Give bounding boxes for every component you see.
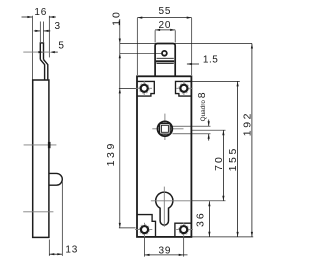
svg-text:139: 139 [105,141,117,166]
tab (stamped tongue) [155,44,175,82]
dim 13 arrow left (pointing left) [49,253,54,255]
dim 13 extension line right [61,182,63,256]
euro cylinder hole [156,192,173,225]
extension line body bottom [192,236,253,238]
dim 55 arrow left (pointing left) [137,17,142,19]
svg-text:3: 3 [55,21,61,32]
dim 36 arrow bottom (down) [208,232,210,237]
pocket bottom-left [137,215,156,237]
dim 39 extension line left [144,238,146,257]
screw bottom-left dashed circle [139,224,149,234]
dim 3 arrow left (pointing right) [35,30,40,32]
euro centerline horizontal (gray) [151,200,191,202]
spindle square inner [161,125,168,132]
pocket top-left [137,81,154,96]
dim 70 arrow bottom (down) [222,196,224,201]
dim 3 right tail [44,30,51,32]
dim 192 line [251,44,253,237]
extension line tab top (to 192 dim) [120,43,252,45]
screw bottom-left ring [141,226,148,233]
dim 5 arrow left (pointing right) [38,51,43,53]
dim 8 extension line top [173,125,211,127]
dim 39 arrow right (pointing right) [179,254,184,256]
dim 10 and dim 139 shared dimension line [119,19,121,228]
dim 155 line [237,81,239,237]
dim 70 extension line (euro center) [191,200,225,202]
spindle centerline (side, gray) [24,144,57,146]
dim 13 extension line left [48,240,50,256]
dim 5 arrow right (pointing left) [50,51,55,53]
screw top-left centerlines [136,81,152,96]
dim 139 extension line upper [119,87,136,89]
extension lines of sheet thickness [39,22,41,43]
dim 39 line [145,254,188,256]
dim 192 arrow bottom (down) [251,232,253,237]
spring leg upper (3 thick) [40,43,45,60]
faceplate bar (side view) [33,80,49,237]
dim 8 extension line bottom [173,133,211,135]
dim 20 arrow right (pointing right) [170,29,175,31]
dim 39 extension line right [183,238,185,257]
dim 20 line [155,29,175,31]
dim 3 arrow right (pointing left) [44,30,49,32]
lower centerline (side, gray) [23,211,53,213]
svg-text:20: 20 [159,20,172,31]
svg-text:155: 155 [227,146,239,171]
dim 36 extension: uses euro centerline and body bottom; line [208,201,210,237]
screw top-left ring [141,85,148,92]
svg-text:70: 70 [213,155,225,171]
dim 155 arrow top (up) [237,81,239,86]
dim 155 arrow bottom (down) [237,232,239,237]
svg-text:16: 16 [34,7,47,18]
dim 139 extension line lower [119,227,136,229]
dim 70 extension line (spindle center) [191,129,225,131]
svg-text:13: 13 [65,245,78,256]
screw top-right ring [180,85,187,92]
dim 16 line left tail [22,16,33,18]
euro centerline vertical (gray) [163,187,165,227]
extension line left bar edge [31,16,33,80]
dim 139 arrow lower (down) [119,223,121,228]
dim 55 extension line right [191,18,193,75]
screw bottom-right dashed circle [179,224,189,234]
screw top-right dashed circle [179,83,189,93]
cylinder protrusion (side view) [49,173,62,185]
spring leg S-bend [40,60,48,81]
svg-text:5: 5 [58,40,64,51]
dim 155 extension line top [192,80,240,82]
spindle square outer [160,124,171,135]
pocket top-right [176,81,192,96]
dim 16 arrow right (pointing left) [49,16,54,18]
dim 55 line [137,17,191,19]
screw top-right centerlines [176,81,193,96]
leader 1.5 arrow [187,63,199,65]
dim 36 arrow top (up) [208,201,210,206]
screw bottom-right centerlines [176,223,193,237]
dim 8 lower arrow (up) [208,134,210,141]
dim 3 left tail [34,30,41,32]
svg-text:36: 36 [195,211,207,227]
serration band [156,60,174,62]
tab hole [162,51,167,56]
dim 16 line right tail [49,16,56,18]
dim 20 extension line right [174,30,176,42]
svg-text:192: 192 [242,111,254,136]
dim 55 arrow right (pointing right) [187,17,192,19]
pocket bottom-right [175,223,192,237]
extension line right bar edge [48,16,50,58]
spindle ring [158,121,173,136]
dim 8 upper arrow (down) [208,120,210,127]
dim 13 line [49,253,62,255]
spindle tick on bar edge [48,142,51,148]
dim 16 arrow left (pointing right) [27,16,32,18]
dim 10 arrow upper (down) [119,39,121,44]
serration line 1 [157,57,174,59]
svg-text:10: 10 [110,10,122,26]
dim 70 line [222,130,224,201]
extension line tab hole center [120,52,163,54]
svg-text:1.5: 1.5 [203,54,218,65]
svg-text:39: 39 [159,245,172,256]
screw top-left dashed circle [139,83,149,93]
dim 139 arrow upper (up) [119,88,121,93]
dim 20 arrow left (pointing left) [155,29,160,31]
spindle centerline horizontal (gray) [152,128,183,130]
dim 5 right tail [54,51,58,53]
dim 55 extension line left [136,18,138,75]
spindle centerline vertical (gray) [164,114,166,140]
svg-text:55: 55 [159,6,172,17]
dim 13 arrow right (pointing right) [57,253,62,255]
dim 10 arrow lower (up) [119,53,121,58]
serration line 2 [157,63,174,65]
screw bottom-left centerlines [135,223,152,237]
dim 192 arrow top (up) [251,44,253,49]
body plate [137,76,191,237]
screw bottom-right ring [180,226,187,233]
dim 70 arrow top (up) [222,130,224,135]
dim 5 line (gray) [23,51,49,53]
dim 39 arrow left (pointing left) [145,254,150,256]
dim 20 extension line left [154,30,156,42]
